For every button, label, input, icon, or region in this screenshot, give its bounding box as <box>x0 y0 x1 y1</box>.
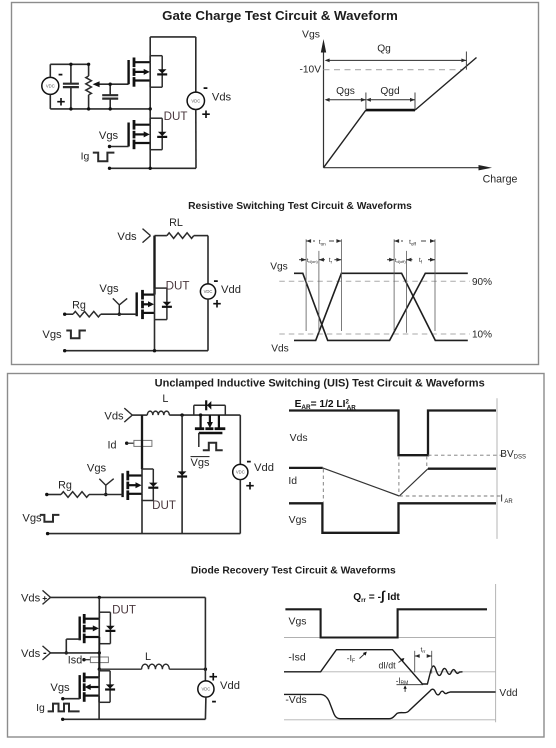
svg-text:Vgs: Vgs <box>99 130 119 142</box>
waveform axis: Charge horizontal axis <box>324 165 493 170</box>
dashed 10% level line <box>279 333 470 335</box>
potentiometer wiper arrow <box>93 81 129 87</box>
svg-text:DUT: DUT <box>166 279 190 292</box>
resistor RL (load) <box>167 233 194 239</box>
Id trace (ramp down then recovery) <box>289 468 496 496</box>
clamp gate drive pulse symbol <box>203 443 223 451</box>
dashed BVDSS level line <box>428 454 503 456</box>
svg-text:-: - <box>203 79 208 96</box>
wire: mid node between Q1 source and DUT drain <box>149 81 152 125</box>
svg-text:Vgs: Vgs <box>99 283 119 295</box>
svg-text:+: + <box>213 296 222 313</box>
wire: top node from probe to inductor <box>132 414 147 416</box>
svg-text:Vds: Vds <box>21 592 41 604</box>
wire: drain node vertical (thick) <box>153 236 155 295</box>
Vgs input pulse symbol <box>66 331 86 339</box>
dimension arrow Qgd <box>366 98 415 102</box>
svg-text:-: - <box>213 272 218 289</box>
-Isd trace with recovery and ringing <box>284 650 463 684</box>
clamp diode D2 (vertical branch) <box>177 415 187 533</box>
svg-text:Vgs: Vgs <box>87 463 107 475</box>
inductor L <box>142 664 170 669</box>
wire: Q7 drain to sense node <box>98 669 100 677</box>
dashed vertical at avalanche start <box>322 469 324 502</box>
gray baseline for -Isd <box>284 671 496 673</box>
svg-text:DUT: DUT <box>152 499 176 512</box>
potentiometer R1 (gate drive adjust) <box>86 63 92 111</box>
Vgs trace (high-low-high trapezoid) <box>294 273 468 340</box>
svg-text:Ig: Ig <box>36 703 45 714</box>
-Vds trace with ringing to Vdd <box>284 689 496 718</box>
svg-text:Rg: Rg <box>72 300 86 312</box>
dimension arrows td(off) and tf <box>387 258 435 262</box>
mosfet Q1 (upper driver FET with body diode) <box>129 56 168 87</box>
svg-text:-: - <box>246 453 251 470</box>
tick at end of Qgd span <box>414 93 416 110</box>
wire: top rail <box>51 596 206 599</box>
svg-text:VDC: VDC <box>191 98 200 103</box>
svg-text:VDC: VDC <box>201 687 210 692</box>
wire: DUT gate lead <box>108 145 129 148</box>
probe chevron lower <box>43 646 51 660</box>
svg-text:Charge: Charge <box>483 174 518 186</box>
mosfet Q2 DUT (device under test with body diode) <box>129 118 168 150</box>
svg-text:Rg: Rg <box>58 480 72 492</box>
tick at end of Qgs span <box>365 93 367 110</box>
dashed -10V level line <box>324 69 464 71</box>
svg-text:-10V: -10V <box>299 65 321 76</box>
Ig drive pulse symbol <box>93 153 115 162</box>
dimension arrow Qgs <box>325 98 366 102</box>
current sense resistor (rect) on source line <box>82 657 108 663</box>
resistor Rg (gate resistor) <box>73 311 101 317</box>
mosfet Q4 clamp FET (rotated, gate down) with diode <box>195 415 225 447</box>
gate probe Y symbol <box>113 298 127 316</box>
voltage source V4 (Vdd) <box>233 415 248 533</box>
wire: DUT source to bottom rail and bottom rail <box>63 320 208 353</box>
clamp FET body diode (horizontal, pointing left) <box>194 400 226 415</box>
tick at end of Qg span <box>465 52 467 70</box>
wire: V1 loop (top and bottom rails of drive section) <box>50 64 150 109</box>
gate charge curve (ramp, plateau, ramp) <box>324 58 477 168</box>
svg-text:Isd: Isd <box>68 655 82 667</box>
svg-text:Vgs: Vgs <box>42 329 62 341</box>
svg-text:Vdd: Vdd <box>254 462 274 474</box>
wire: gate lead from Rg to gate bar <box>89 494 123 496</box>
svg-text:Qg: Qg <box>377 44 391 55</box>
wire: input terminal to Rg <box>45 493 61 496</box>
wire: DUT source to bottom rail <box>149 143 151 168</box>
mosfet Q5 DUT (with body diode) <box>123 469 159 501</box>
trr dimension arrows <box>415 654 432 658</box>
Vgs input pulse symbol <box>40 515 60 522</box>
svg-text:VDC: VDC <box>46 84 55 89</box>
wire: DUT gate tied down to source sense node <box>65 639 80 655</box>
svg-text:+: + <box>57 94 66 111</box>
svg-text:Vgs: Vgs <box>22 513 42 525</box>
wire: node to inductor <box>99 668 141 670</box>
svg-text:Vdd: Vdd <box>220 680 240 692</box>
svg-text:-: - <box>212 693 217 710</box>
svg-text:-Isd: -Isd <box>288 652 306 663</box>
trr measurement ticks <box>415 651 432 674</box>
probe chevron at drain <box>143 229 151 243</box>
svg-text:L: L <box>162 393 168 405</box>
svg-text:Qgd: Qgd <box>380 86 400 97</box>
svg-text:+: + <box>209 669 218 686</box>
svg-text:Vds: Vds <box>271 344 289 355</box>
dimension arrows td(on) and tr <box>299 258 341 262</box>
measurement tick lines (turn-on) <box>306 239 341 332</box>
probe chevron at drain node <box>124 408 132 422</box>
Vgs trace (gate pulse) <box>285 609 487 637</box>
wire: Q1 drain to top rail and top rail to Vds source <box>150 37 196 62</box>
current sense resistor (rect) on drain line <box>125 440 152 446</box>
svg-text:RL: RL <box>169 217 183 229</box>
probe chevron upper <box>43 590 51 604</box>
Vgs trace (UIS) <box>289 503 496 533</box>
svg-text:Gate Charge Test Circuit & Wav: Gate Charge Test Circuit & Waveform <box>162 8 398 23</box>
dashed IAR level line <box>399 495 503 497</box>
svg-text:Diode Recovery Test Circuit &: Diode Recovery Test Circuit & Waveforms <box>191 566 396 577</box>
wire: gate lead from Rg to gate bar <box>101 313 137 315</box>
svg-text:Unclamped Inductive Switching: Unclamped Inductive Switching (UIS) Test… <box>155 378 485 390</box>
wire: bottom rail to Vds source return <box>108 167 196 170</box>
svg-text:+: + <box>202 106 211 123</box>
svg-text:Vds: Vds <box>104 411 124 423</box>
Vds trace (low-high-low trapezoid) <box>294 273 468 340</box>
wire: sense line down to inductor node <box>98 653 101 671</box>
svg-text:dI/dt: dI/dt <box>378 660 396 670</box>
svg-text:Vgs: Vgs <box>289 617 307 628</box>
wire: drain node vertical (thick) <box>141 415 143 469</box>
wire: inductor to Vdd rail <box>169 668 207 671</box>
Vds trace (UIS) <box>289 411 496 456</box>
wire: top node to RL <box>155 235 167 237</box>
svg-text:L: L <box>145 651 151 663</box>
voltage source V1 (VDC, gate drive supply) <box>42 77 59 94</box>
svg-text:10%: 10% <box>472 330 492 341</box>
dimension arrow t_off <box>394 239 435 243</box>
gray right boundary line <box>495 584 497 722</box>
svg-text:Vdd: Vdd <box>221 284 241 296</box>
dashed 90% level line <box>279 280 470 282</box>
svg-text:Vgs: Vgs <box>270 262 288 273</box>
svg-text:DUT: DUT <box>112 603 136 616</box>
svg-text:Vgs: Vgs <box>191 457 210 469</box>
label Vgs with overline (clamp gate) <box>191 457 210 469</box>
capacitor C2 (gate capacitor) <box>102 83 118 111</box>
wire: Q7 gate lead <box>61 697 80 700</box>
voltage source V3 (Vdd) <box>200 284 215 351</box>
measurement tick lines (turn-off) <box>394 239 435 332</box>
svg-text:td(on): td(on) <box>307 258 319 264</box>
wire: sense node rail <box>51 651 102 654</box>
wire: input terminal to Rg <box>63 313 73 316</box>
svg-text:td(off): td(off) <box>395 258 406 264</box>
svg-text:DUT: DUT <box>164 110 188 123</box>
wire: DUT source to bottom rail, bottom rail <box>46 500 240 536</box>
svg-text:Vds: Vds <box>117 231 137 243</box>
svg-text:Ig: Ig <box>81 152 90 163</box>
Ig double pulse symbol <box>48 704 80 712</box>
voltage source V5 (Vdd) <box>198 597 214 719</box>
gate probe Y symbol <box>99 479 113 496</box>
dimension arrow t_on <box>306 239 341 243</box>
svg-text:Id: Id <box>288 476 297 487</box>
wire: RL to Vdd source <box>194 236 208 284</box>
svg-text:Qgs: Qgs <box>336 86 355 97</box>
mosfet Q6 DUT (with body diode) <box>80 612 116 644</box>
voltage source V2 (Vds supply) <box>187 37 204 168</box>
label dI/dt with pointer arrow <box>378 658 404 670</box>
svg-text:Vgs: Vgs <box>50 682 70 694</box>
mosfet Q7 (lower FET, mirrored arrow, with body diode) <box>80 671 115 703</box>
label -IRM with leader line and up arrow <box>396 676 423 692</box>
dashed vertical at avalanche end <box>398 456 400 496</box>
wire: inductor to clamp circuit and Vdd rail <box>169 413 240 416</box>
svg-text:90%: 90% <box>472 277 492 288</box>
gray baseline for Vgs <box>284 637 496 639</box>
svg-text:+: + <box>246 478 255 495</box>
label -IF with pointer arrow <box>347 652 367 665</box>
waveform axis: Vgs vertical axis <box>321 39 326 168</box>
dimension arrow Qg <box>325 59 467 63</box>
svg-text:Vds: Vds <box>290 433 308 444</box>
wire: Q7 source to bottom rail, bottom rail <box>61 696 205 721</box>
svg-text:Id: Id <box>107 440 116 452</box>
wire: DUT drain up to top rail <box>98 597 100 618</box>
resistor Rg (gate resistor) <box>61 492 89 498</box>
svg-text:Vds: Vds <box>21 648 41 660</box>
svg-text:-: - <box>58 66 63 83</box>
svg-text:VDC: VDC <box>236 470 245 475</box>
mosfet Q3 DUT (with body diode) <box>137 288 172 320</box>
gray right boundary line <box>496 398 498 539</box>
svg-text:-Vds: -Vds <box>285 695 306 706</box>
capacitor C1 (input filter) <box>63 63 79 111</box>
svg-text:Resistive Switching Test Circu: Resistive Switching Test Circuit & Wavef… <box>188 201 412 212</box>
inductor L <box>147 411 169 415</box>
svg-text:Vds: Vds <box>212 91 232 103</box>
svg-text:Vgs: Vgs <box>302 30 320 41</box>
dashed vertical at Vds recovery <box>426 456 428 468</box>
wire: DUT source vertical <box>98 637 100 653</box>
svg-text:VDC: VDC <box>204 289 213 294</box>
gray baseline for -Vds <box>284 719 496 721</box>
svg-text:Vgs: Vgs <box>289 515 307 526</box>
svg-text:Vdd: Vdd <box>499 688 517 699</box>
